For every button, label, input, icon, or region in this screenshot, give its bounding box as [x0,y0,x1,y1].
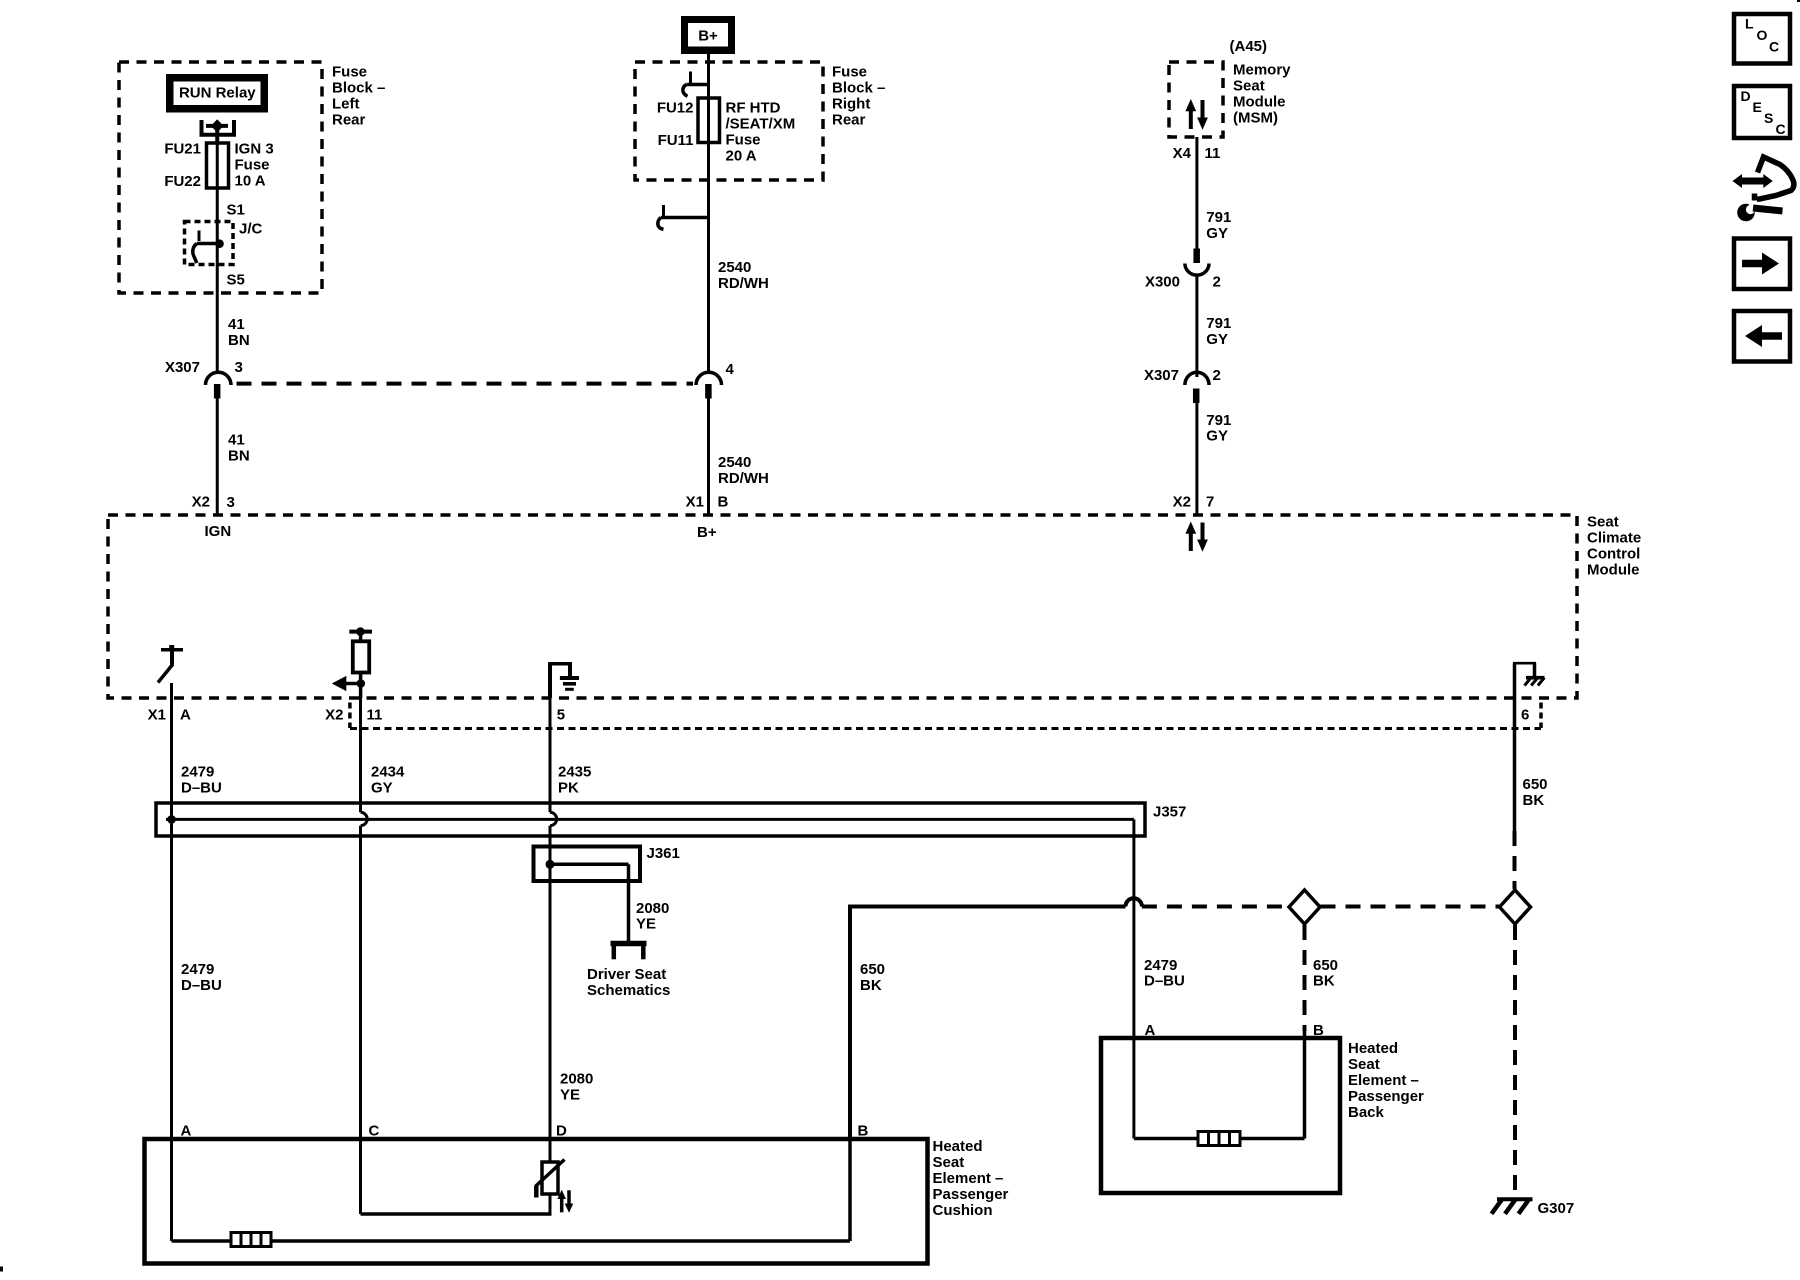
svg-text:11: 11 [367,706,383,723]
svg-text:6: 6 [1521,706,1529,723]
svg-text:PK: PK [558,780,579,797]
connector X307 pin 2 [1185,372,1209,403]
splice line hop over 2479 D-BU wire [1126,898,1142,906]
svg-text:10 A: 10 A [235,173,266,190]
cushion pin A label [181,1123,192,1140]
MSM up/down arrows [1185,99,1208,130]
S1 label [227,202,245,219]
resistor with output arrow inside SCCM at X2.11 [332,627,372,698]
X2 connector dotted line [350,727,1541,730]
svg-text:Climate: Climate [1587,530,1641,547]
splice pack J357 [156,803,1145,837]
dashed splice line to diamond 2 [1321,905,1500,909]
svg-text:Fuse: Fuse [832,64,867,81]
svg-text:Memory: Memory [1233,62,1291,79]
heater element wire A to B (back) [1134,1137,1305,1141]
X307 pin 3 labels [165,359,243,376]
relay: RUN Relay [166,74,268,113]
svg-text:Right: Right [832,96,870,113]
svg-text:41: 41 [228,316,245,333]
page corner mark top right [1797,0,1800,2]
heated seat element passenger cushion box [145,1139,928,1264]
svg-text:3: 3 [235,359,243,376]
svg-text:Control: Control [1587,546,1640,563]
wire thermistor to C-D link [549,1194,552,1214]
svg-text:Back: Back [1348,1104,1385,1121]
wire 2479 D-BU: J357 to heated seat back pin A [1132,837,1135,1139]
svg-text:(A45): (A45) [1230,38,1268,55]
svg-text:B: B [1313,1022,1324,1039]
wire 791 GY: MSM X4.11 to X300 [1195,137,1198,249]
thermistor (cushion temperature sensor) [535,1160,564,1198]
page corner mark bottom left [0,1267,3,1272]
memory seat module box [1169,62,1223,137]
connector X300 pin 2 [1145,249,1221,291]
svg-text:X2: X2 [325,706,343,723]
switch inside SCCM at X1.A [158,645,183,683]
heater element resistor (cushion) [231,1233,271,1247]
svg-text:D: D [1741,88,1751,104]
41 BN wire label (upper) [228,316,250,349]
svg-text:C: C [1776,121,1786,137]
S5 label [227,272,245,289]
791 GY wire label (1) [1206,209,1231,242]
svg-text:D: D [556,1123,567,1140]
svg-text:X1: X1 [686,494,704,511]
41 BN wire label (lower) [228,432,250,465]
wire 2080 YE: J361 to off-page connector [627,864,631,941]
svg-text:2540: 2540 [718,259,751,276]
svg-text:Passenger: Passenger [1348,1088,1424,1105]
svg-text:Fuse: Fuse [726,132,761,149]
fuse block left rear label [332,64,385,129]
splice diamond 1 [1289,890,1320,924]
svg-text:RF HTD: RF HTD [726,100,781,117]
791 GY wire label (2) [1206,315,1231,348]
svg-text:B: B [718,494,729,511]
svg-text:2080: 2080 [636,900,669,917]
2479 D-BU wire label (right) [1144,957,1185,990]
ground G307 [1492,1199,1533,1214]
IGN net label [205,523,232,540]
wire 791 GY: X307.2 to SCCM X2.7 [1195,403,1198,515]
SCCM pin X2 3 labels [192,494,235,512]
svg-text:791: 791 [1206,209,1231,226]
J361 label [647,845,680,862]
svg-text:BK: BK [860,977,882,994]
temperature up/down arrows (cushion) [557,1190,573,1213]
B+ net label [697,524,717,541]
svg-text:X307: X307 [1144,367,1179,384]
fuse FU21/FU22 IGN 3 Fuse 10 A [164,141,273,191]
svg-text:Left: Left [332,96,360,113]
svg-text:Cushion: Cushion [933,1202,993,1219]
fuse FU12/FU11 RF HTD/SEAT/XM Fuse 20 A [657,98,795,165]
2540 RD/WH wire label (upper) [718,259,769,292]
wire 2435 PK: SCCM pin 5 to J361 and cushion pin D with hop at J357 [550,698,557,1162]
battery feed B+ box [681,16,735,54]
junction dot S1/S5 [215,239,224,248]
svg-text:Module: Module [1233,94,1286,111]
chassis ground inside SCCM at pin 6 [1513,663,1545,698]
svg-text:(MSM): (MSM) [1233,110,1278,127]
connector X307 pin 4 [696,372,722,398]
svg-text:J361: J361 [647,845,680,862]
X307 pin 2 labels [1144,367,1221,384]
SCCM up/down arrows below X2.7 [1185,522,1208,552]
heated seat element passenger cushion label [933,1138,1009,1219]
junction J/C box [185,222,234,265]
svg-text:2080: 2080 [560,1071,593,1088]
svg-text:X300: X300 [1145,274,1180,291]
svg-text:Element –: Element – [933,1170,1004,1187]
svg-text:C: C [369,1123,380,1140]
svg-text:Heated: Heated [933,1138,983,1155]
svg-text:B+: B+ [697,524,717,541]
svg-text:Block –: Block – [332,80,385,97]
heated seat element passenger back box [1101,1038,1340,1193]
svg-text:BN: BN [228,448,250,465]
nav button back (left arrow) [1734,311,1790,362]
svg-text:J357: J357 [1153,804,1186,821]
heater element wire A to B (cushion) [172,1239,851,1243]
svg-text:650: 650 [1313,957,1338,974]
wire 650 BK: cushion pin B up and right to splice hop [850,907,1126,1140]
svg-text:D–BU: D–BU [181,977,222,994]
wire 791 GY: X300 to X307 [1195,275,1198,377]
2080 YE wire label (lower) [560,1071,593,1104]
wire 2434 GY: SCCM X2.11 to cushion pin C with hop at J357 [361,698,368,1214]
svg-text:FU12: FU12 [657,100,694,117]
cushion pin B label [858,1123,869,1140]
svg-text:A: A [180,706,191,723]
svg-text:RUN Relay: RUN Relay [179,85,256,102]
svg-text:Schematics: Schematics [587,982,670,999]
svg-text:S1: S1 [227,202,245,219]
svg-text:Seat: Seat [933,1154,965,1171]
svg-text:YE: YE [636,916,656,933]
2479 D-BU wire label (lower left) [181,961,222,994]
(A45) label [1230,38,1268,55]
svg-text:2540: 2540 [718,454,751,471]
svg-text:D–BU: D–BU [181,780,222,797]
svg-text:2: 2 [1213,274,1221,291]
svg-text:Passenger: Passenger [933,1186,1009,1203]
pigtail terminal at FU12 [683,72,709,97]
fuse block right rear box [635,62,823,180]
svg-text:B: B [858,1123,869,1140]
svg-text:RD/WH: RD/WH [718,275,769,292]
svg-text:Module: Module [1587,562,1640,579]
G307 label [1538,1200,1575,1217]
svg-text:B+: B+ [698,28,718,45]
signal ground inside SCCM at pin 5 [548,664,579,699]
svg-text:650: 650 [860,961,885,978]
svg-text:2434: 2434 [371,764,405,781]
svg-text:5: 5 [557,706,565,723]
nav button DESC [1734,86,1790,138]
svg-text:2: 2 [1213,367,1221,384]
back pin A label [1145,1022,1156,1039]
svg-text:Seat: Seat [1348,1056,1380,1073]
svg-text:FU21: FU21 [164,141,201,158]
svg-text:O: O [1757,27,1768,43]
wire stub X1.A inside SCCM [170,683,173,698]
fuse block left rear box [119,62,322,293]
wire 2540 RD/WH: X307.4 to SCCM X1.B [707,399,710,516]
svg-text:3: 3 [227,494,235,511]
2080 YE wire label (upper) [636,900,669,933]
svg-text:Block –: Block – [832,80,885,97]
svg-text:X2: X2 [1173,494,1191,511]
650 BK wire label (middle) [1313,957,1338,990]
650 BK wire label (upper right) [1523,776,1548,809]
svg-text:791: 791 [1206,412,1231,429]
SCCM pin X1 B labels [686,494,729,511]
svg-text:650: 650 [1523,776,1548,793]
pigtail terminal below fuse block right rear [658,205,709,229]
svg-text:Driver Seat: Driver Seat [587,966,666,983]
wire 41 BN: X307.3 to SCCM X2.3 [216,399,219,516]
svg-text:FU22: FU22 [164,173,201,190]
X307 in-line connector dashed line [237,382,694,386]
svg-text:S: S [1764,110,1773,126]
svg-text:A: A [1145,1022,1156,1039]
back pin B label [1313,1022,1324,1039]
J357 label [1153,804,1186,821]
svg-text:7: 7 [1206,494,1214,511]
off-page connector to driver seat schematics [611,944,647,960]
svg-text:GY: GY [371,780,393,797]
heated seat element passenger back label [1348,1040,1424,1121]
2479 D-BU wire label (upper) [181,764,222,797]
driver seat schematics label [587,966,670,999]
svg-text:Rear: Rear [832,112,866,129]
cushion pin C label [369,1123,380,1140]
memory seat module label [1233,62,1291,127]
dashed wire 650 BK: diamond 2 to G307 [1513,925,1517,1196]
SCCM pin X2 11 labels with divider [325,703,382,729]
svg-text:Rear: Rear [332,112,366,129]
svg-text:BN: BN [228,332,250,349]
svg-text:BK: BK [1313,973,1335,990]
wire: fuse to S1 junction down to X307 [216,144,219,372]
seat climate control module label [1587,514,1641,579]
svg-text:20 A: 20 A [726,148,757,165]
svg-text:11: 11 [1205,145,1221,162]
connector X307 pin 3 [206,372,232,398]
splice diamond 2 [1500,890,1531,924]
fuse block right rear label [832,64,885,129]
wire 2540 RD/WH: fuse to X307.4 [707,143,710,373]
svg-text:IGN: IGN [205,523,232,540]
svg-text:YE: YE [560,1087,580,1104]
svg-text:S5: S5 [227,272,245,289]
wire 650 BK: diamond 1 to heated seat back pin B [1303,925,1307,1139]
650 BK wire label (left) [860,961,885,994]
svg-text:FU11: FU11 [658,132,694,149]
svg-text:GY: GY [1206,331,1228,348]
svg-text:GY: GY [1206,428,1228,445]
MSM pin X4 11 labels [1173,145,1221,162]
SCCM pin X2 7 labels [1173,494,1215,511]
svg-text:E: E [1753,99,1762,115]
wire 650 BK: SCCM pin 6 to diamond 2 [1513,698,1517,889]
J/C label [239,221,263,238]
svg-text:Fuse: Fuse [235,157,270,174]
svg-text:2479: 2479 [181,764,214,781]
svg-text:RD/WH: RD/WH [718,470,769,487]
svg-text:4: 4 [726,361,735,378]
wire B inside cushion element [848,1139,852,1241]
svg-text:Seat: Seat [1587,514,1619,531]
2434 GY wire label [371,764,405,797]
svg-text:BK: BK [1523,792,1545,809]
SCCM pin 5 label [557,706,565,723]
nav button LOC [1734,14,1790,64]
svg-text:D–BU: D–BU [1144,973,1185,990]
svg-text:791: 791 [1206,315,1231,332]
svg-text:A: A [181,1123,192,1140]
pigtail hook at J/C [193,231,220,264]
svg-text:2479: 2479 [181,961,214,978]
heater element resistor (back) [1198,1132,1240,1146]
svg-text:L: L [1745,16,1754,32]
svg-text:Fuse: Fuse [332,64,367,81]
wire C to D link inside cushion [361,1212,552,1216]
nav icon schematic navigation (arrows and wrench) [1733,157,1794,221]
svg-text:Heated: Heated [1348,1040,1398,1057]
2435 PK wire label [558,764,591,797]
svg-text:Seat: Seat [1233,78,1265,95]
seat climate control module box [108,515,1577,698]
svg-text:IGN 3: IGN 3 [235,141,274,158]
svg-text:2479: 2479 [1144,957,1177,974]
svg-text:41: 41 [228,432,245,449]
svg-text:X1: X1 [148,706,166,723]
connector terminal below RUN Relay [202,119,235,144]
svg-text:Element –: Element – [1348,1072,1419,1089]
dashed splice line to diamond 1 [1142,905,1289,909]
cushion pin D label [556,1123,567,1140]
svg-text:/SEAT/XM: /SEAT/XM [726,116,796,133]
nav button next (right arrow) [1734,239,1790,290]
svg-text:J/C: J/C [239,221,263,238]
2540 RD/WH wire label (lower) [718,454,769,487]
SCCM pin 6 label with divider [1521,703,1541,729]
splice pack J361 [534,847,641,882]
791 GY wire label (3) [1206,412,1231,445]
svg-text:G307: G307 [1538,1200,1575,1217]
svg-text:C: C [1769,39,1779,55]
svg-text:GY: GY [1206,225,1228,242]
svg-text:X2: X2 [192,494,210,511]
wire 2479 D-BU: SCCM X1.A through J357 to cushion pin A [170,698,173,1241]
X307 pin 4 label [726,361,735,378]
svg-text:2435: 2435 [558,764,591,781]
wire: B+ to fuse FU12 [707,54,710,143]
svg-text:X4: X4 [1173,145,1192,162]
svg-text:X307: X307 [165,359,200,376]
SCCM pin X1 A labels [148,706,191,723]
